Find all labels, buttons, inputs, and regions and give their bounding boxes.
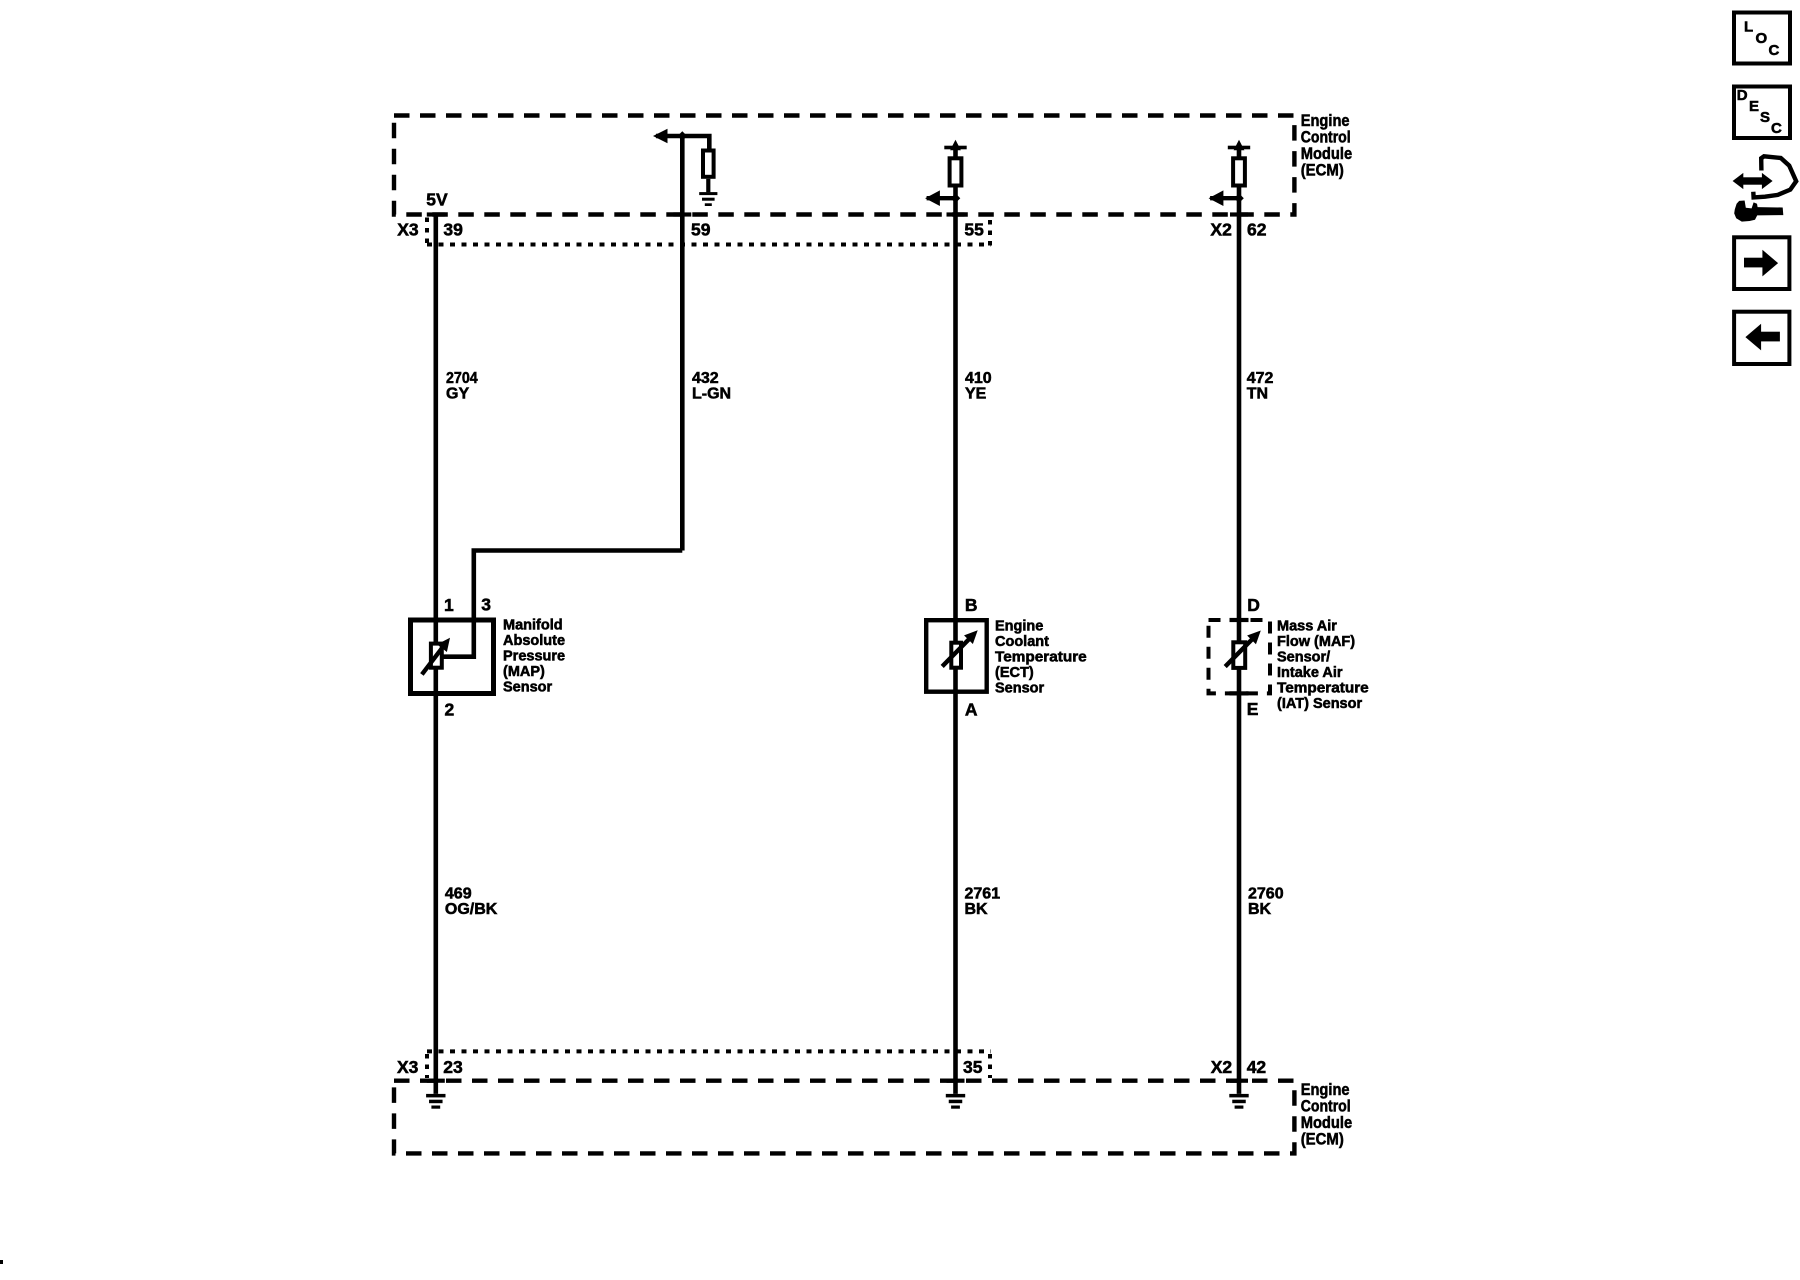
svg-text:BK: BK	[965, 901, 989, 918]
svg-text:(MAP): (MAP)	[503, 664, 545, 680]
svg-text:23: 23	[443, 1057, 463, 1077]
svg-text:YE: YE	[965, 386, 987, 403]
svg-text:2761: 2761	[965, 885, 1001, 902]
svg-text:C: C	[1769, 42, 1780, 59]
svg-text:D: D	[1247, 595, 1260, 615]
svg-text:432: 432	[692, 370, 719, 387]
svg-text:Sensor: Sensor	[503, 679, 553, 695]
svg-text:O: O	[1756, 30, 1768, 47]
svg-text:(ECM): (ECM)	[1301, 161, 1344, 179]
svg-text:L-GN: L-GN	[692, 386, 731, 403]
svg-text:62: 62	[1247, 220, 1267, 240]
svg-text:Mass Air: Mass Air	[1277, 619, 1337, 635]
svg-text:Intake Air: Intake Air	[1277, 665, 1343, 681]
svg-text:469: 469	[445, 885, 472, 902]
svg-text:Control: Control	[1301, 1098, 1351, 1116]
svg-text:E: E	[1247, 699, 1259, 719]
svg-text:2760: 2760	[1248, 885, 1284, 902]
svg-text:X3: X3	[397, 1057, 419, 1077]
svg-text:BK: BK	[1248, 901, 1272, 918]
svg-text:Temperature: Temperature	[995, 649, 1087, 665]
svg-text:55: 55	[964, 220, 984, 240]
svg-text:39: 39	[443, 220, 463, 240]
svg-text:1: 1	[444, 595, 454, 615]
svg-text:X2: X2	[1211, 1057, 1233, 1077]
svg-text:Module: Module	[1301, 145, 1353, 163]
svg-text:Manifold: Manifold	[503, 618, 563, 634]
svg-text:3: 3	[481, 594, 491, 614]
svg-text:(IAT) Sensor: (IAT) Sensor	[1277, 696, 1362, 712]
svg-text:C: C	[1771, 120, 1782, 137]
svg-text:Sensor: Sensor	[995, 680, 1045, 696]
svg-text:59: 59	[691, 220, 711, 240]
svg-text:TN: TN	[1247, 386, 1268, 403]
svg-text:Control: Control	[1301, 128, 1351, 146]
svg-text:OG/BK: OG/BK	[445, 901, 498, 918]
svg-text:Flow (MAF): Flow (MAF)	[1277, 634, 1355, 650]
svg-text:Engine: Engine	[1301, 112, 1350, 130]
svg-text:E: E	[1749, 98, 1759, 115]
svg-text:5V: 5V	[426, 190, 448, 210]
svg-text:Module: Module	[1301, 1114, 1353, 1132]
svg-text:L: L	[1744, 19, 1753, 36]
svg-text:2: 2	[445, 699, 455, 719]
svg-text:B: B	[965, 595, 978, 615]
svg-text:Sensor/: Sensor/	[1277, 650, 1330, 666]
svg-text:X2: X2	[1210, 220, 1232, 240]
svg-text:472: 472	[1247, 370, 1274, 387]
svg-text:(ECT): (ECT)	[995, 665, 1034, 681]
svg-text:Coolant: Coolant	[995, 634, 1049, 650]
svg-text:(ECM): (ECM)	[1301, 1131, 1344, 1149]
svg-text:D: D	[1737, 87, 1748, 104]
svg-text:42: 42	[1247, 1057, 1267, 1077]
svg-text:GY: GY	[446, 386, 469, 403]
svg-text:Pressure: Pressure	[503, 648, 565, 664]
svg-text:S: S	[1760, 109, 1770, 126]
svg-text:Temperature: Temperature	[1277, 680, 1369, 696]
svg-text:2704: 2704	[446, 370, 478, 387]
svg-text:Engine: Engine	[1301, 1081, 1350, 1099]
svg-text:410: 410	[965, 370, 992, 387]
svg-text:Engine: Engine	[995, 619, 1043, 635]
svg-text:A: A	[965, 699, 978, 719]
svg-text:Absolute: Absolute	[503, 633, 565, 649]
svg-text:X3: X3	[397, 220, 419, 240]
svg-text:35: 35	[963, 1057, 983, 1077]
